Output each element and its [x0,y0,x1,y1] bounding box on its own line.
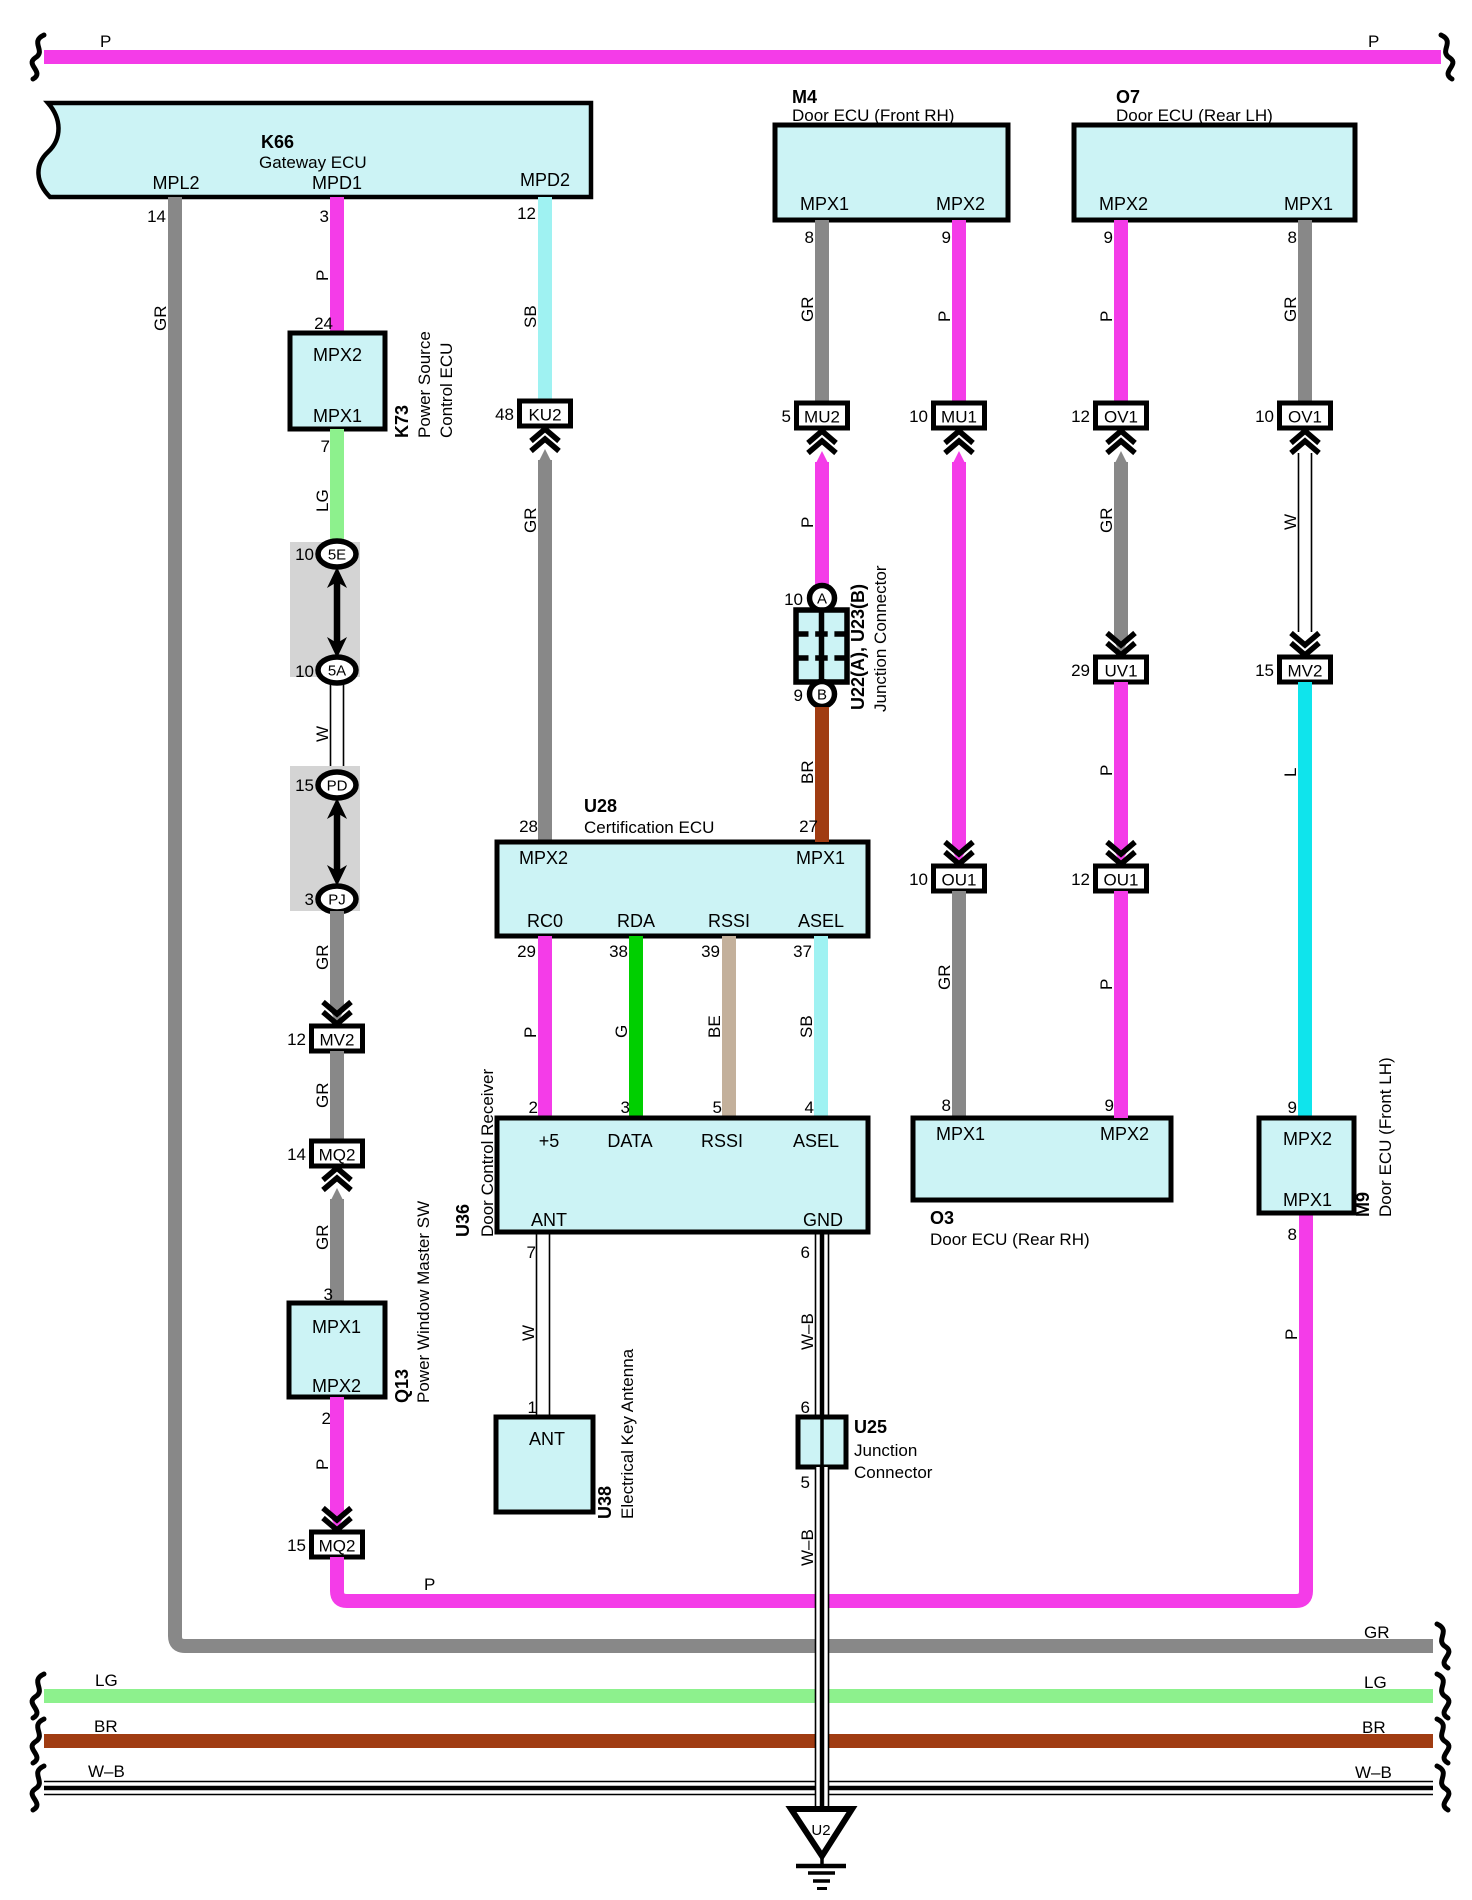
svg-text:6: 6 [801,1243,810,1262]
wire LG from K73 pin 7 to connector 5E [330,429,344,545]
svg-text:Door Control Receiver: Door Control Receiver [478,1068,497,1237]
connector MV2 pin 15 [1280,657,1331,682]
svg-text:P: P [100,32,111,51]
svg-text:39: 39 [701,942,720,961]
wire W-B bus [44,1781,1433,1783]
svg-text:9: 9 [1288,1098,1297,1117]
chevron into OU1 [1107,852,1135,864]
svg-text:MPX1: MPX1 [1283,1190,1332,1210]
junction connector U22(A),U23(B) grid [796,610,847,682]
svg-text:Junction Connector: Junction Connector [871,565,890,712]
wire SB ASEL to ASEL [814,936,828,1118]
svg-text:B: B [817,687,827,704]
svg-text:BR: BR [1362,1718,1386,1737]
svg-text:10: 10 [295,545,314,564]
wire P from MQ2 along bottom up to M9 pin 8 [337,1213,1306,1601]
wire BR bus [44,1734,1433,1748]
chevron into MQ2 [323,1518,351,1530]
connector OU1 pin 12 [1096,866,1147,891]
svg-text:MPX1: MPX1 [313,406,362,426]
wire LG bus [44,1689,1433,1703]
svg-text:GR: GR [1281,297,1300,323]
svg-text:Door ECU (Rear LH): Door ECU (Rear LH) [1116,106,1273,125]
ECU M4 Door ECU (Front RH) box [775,125,1008,220]
svg-text:MU1: MU1 [941,408,977,427]
svg-text:BR: BR [798,760,817,784]
svg-text:W–B: W–B [798,1313,817,1350]
wire GR from MQ2 to Q13 [331,1188,344,1201]
svg-text:8: 8 [1288,1225,1297,1244]
svg-text:GR: GR [935,965,954,991]
chevron out of MU1 [945,431,973,443]
wire GR O7 pin 8 to OV1 [1298,220,1312,403]
svg-text:KU2: KU2 [528,406,561,425]
svg-text:K73: K73 [392,405,412,438]
svg-text:OV1: OV1 [1288,408,1322,427]
svg-text:10: 10 [784,590,803,609]
svg-text:10: 10 [909,407,928,426]
svg-text:Door ECU (Front LH): Door ECU (Front LH) [1376,1057,1395,1217]
svg-text:O3: O3 [930,1208,954,1228]
connector 5E [318,541,356,567]
chevron out of KU2 [531,429,559,441]
svg-text:MPD2: MPD2 [520,170,570,190]
svg-text:GR: GR [521,508,540,534]
svg-text:29: 29 [517,942,536,961]
svg-text:5A: 5A [328,663,346,680]
svg-text:PD: PD [327,778,348,795]
svg-text:2: 2 [529,1098,538,1117]
svg-text:ANT: ANT [531,1210,567,1230]
shield block (gray) PD-PJ [290,766,360,911]
svg-text:48: 48 [495,405,514,424]
svg-text:Power Window Master SW: Power Window Master SW [414,1201,433,1403]
svg-text:MPX2: MPX2 [1099,194,1148,214]
svg-text:OV1: OV1 [1104,408,1138,427]
wire break squiggle top-left [32,35,44,79]
wire break squiggle top-right [1441,35,1453,79]
ECU K66 Gateway ECU box [38,103,591,197]
wire P OU1 to O3 pin 9 [1114,891,1128,1118]
svg-text:K66: K66 [261,132,294,152]
svg-text:SB: SB [521,305,540,328]
svg-text:RSSI: RSSI [701,1131,743,1151]
svg-text:5: 5 [782,407,791,426]
svg-text:9: 9 [794,686,803,705]
ground U2 [791,1809,852,1856]
svg-text:U28: U28 [584,796,617,816]
wire W U36 ANT to U38 [536,1232,538,1417]
svg-text:MQ2: MQ2 [319,1537,356,1556]
svg-text:12: 12 [1071,870,1090,889]
wire BR junction B to U28 pin 27 [815,707,829,842]
svg-text:7: 7 [527,1243,536,1262]
in-harness arrow between PD and PJ [334,808,341,876]
svg-text:P: P [424,1575,435,1594]
svg-text:2: 2 [322,1409,331,1428]
svg-text:3: 3 [305,890,314,909]
wire P MU1 to OU1 [953,451,966,464]
svg-text:27: 27 [799,817,818,836]
svg-text:UV1: UV1 [1104,662,1137,681]
connector OU1 pin 10 [934,866,985,891]
svg-text:OU1: OU1 [1104,871,1139,890]
svg-text:8: 8 [942,1096,951,1115]
ECU O3 Door ECU (Rear RH) box [913,1118,1171,1200]
connector KU2 pin 48 [520,401,571,426]
connector MU2 pin 5 [797,403,848,428]
svg-text:8: 8 [1288,228,1297,247]
svg-text:U2: U2 [811,1822,830,1839]
svg-text:M4: M4 [792,87,817,107]
svg-text:GR: GR [1097,508,1116,534]
svg-text:W–B: W–B [1355,1763,1392,1782]
svg-text:4: 4 [805,1098,814,1117]
svg-text:P: P [798,517,817,528]
svg-text:MV2: MV2 [320,1031,355,1050]
SW Q13 Power Window Master SW box [289,1303,385,1397]
wire W-B U36 GND to U25 [815,1232,817,1417]
svg-text:A: A [817,591,827,608]
svg-text:MPD1: MPD1 [312,173,362,193]
chevron into OU1 [945,852,973,864]
svg-text:GR: GR [313,1083,332,1109]
wire P M4 pin 9 to MU1 [952,220,966,403]
svg-text:Gateway ECU: Gateway ECU [259,153,367,172]
wire G RDA to DATA [629,936,643,1118]
svg-text:W–B: W–B [88,1762,125,1781]
svg-text:5: 5 [801,1473,810,1492]
wire SB from K66 pin 12 to KU2 [538,197,552,401]
svg-text:12: 12 [1071,407,1090,426]
connector OV1 pin 12 [1096,403,1147,428]
wire P MU2 to junction A [816,451,829,464]
svg-text:O7: O7 [1116,87,1140,107]
wire W between 5A and PD [330,683,332,774]
wire GR from MV2 to MQ2 [330,1051,344,1141]
svg-text:U38: U38 [595,1486,615,1519]
svg-text:MPX1: MPX1 [800,194,849,214]
svg-text:LG: LG [95,1671,118,1690]
svg-text:Door ECU (Rear RH): Door ECU (Rear RH) [930,1230,1090,1249]
svg-text:Junction: Junction [854,1441,917,1460]
wire P RC0 to +5 [538,936,552,1118]
svg-text:LG: LG [313,489,332,512]
svg-text:MV2: MV2 [1288,662,1323,681]
connector PJ [318,886,356,912]
svg-text:38: 38 [609,942,628,961]
junction connector U22(A),U23(B) terminal A [810,586,835,611]
svg-text:P: P [935,311,954,322]
svg-text:15: 15 [1255,661,1274,680]
svg-text:MPL2: MPL2 [152,173,199,193]
svg-text:Power Source: Power Source [415,331,434,438]
wire P O7 pin 9 to OV1 [1114,220,1128,403]
svg-text:RC0: RC0 [527,911,563,931]
connector OV1 pin 10 [1280,403,1331,428]
wire P main bus (top) [44,50,1441,64]
svg-text:GR: GR [1364,1623,1390,1642]
wire L MV2 to M9 pin 9 [1298,682,1312,1118]
svg-text:MPX2: MPX2 [936,194,985,214]
svg-text:ASEL: ASEL [793,1131,839,1151]
ECU M9 Door ECU (Front LH) box [1259,1118,1354,1213]
wire W-B U25 to ground U2 [816,1467,829,1809]
svg-text:MPX2: MPX2 [313,345,362,365]
svg-text:1: 1 [528,1398,537,1417]
ECU U28 Certification ECU box [497,842,868,936]
svg-text:OU1: OU1 [942,871,977,890]
svg-text:P: P [1097,765,1116,776]
svg-text:29: 29 [1071,661,1090,680]
svg-text:ASEL: ASEL [798,911,844,931]
svg-text:RDA: RDA [617,911,655,931]
svg-text:DATA: DATA [607,1131,652,1151]
svg-text:GND: GND [803,1210,843,1230]
wire P UV1 to OU1 [1114,682,1128,852]
svg-text:10: 10 [909,870,928,889]
svg-text:12: 12 [517,204,536,223]
wire GR from KU2 to U28 pin 28 [539,449,552,462]
wire break squiggle GR right [1437,1624,1449,1668]
shield block (gray) 5E-5A [290,542,360,677]
svg-text:BE: BE [705,1015,724,1038]
svg-text:MPX2: MPX2 [1100,1124,1149,1144]
svg-text:14: 14 [147,207,166,226]
chevron out of OV1 [1291,431,1319,443]
svg-text:14: 14 [287,1145,306,1164]
ECU O7 Door ECU (Rear LH) box [1074,125,1355,220]
svg-text:P: P [1097,311,1116,322]
svg-text:GR: GR [313,1225,332,1251]
svg-text:U22(A), U23(B): U22(A), U23(B) [848,584,868,710]
chevron out of MQ2 [323,1168,351,1180]
svg-text:GR: GR [313,945,332,971]
svg-text:RSSI: RSSI [708,911,750,931]
wire GR from PJ to MV2 [330,911,344,1012]
svg-text:Electrical Key Antenna: Electrical Key Antenna [618,1348,637,1519]
svg-text:W: W [1281,514,1300,530]
wire GR OU1 to O3 pin 8 [952,891,966,1118]
svg-text:28: 28 [519,817,538,836]
svg-text:MPX2: MPX2 [1283,1129,1332,1149]
svg-text:L: L [1281,768,1300,777]
svg-text:MPX1: MPX1 [1284,194,1333,214]
svg-text:BR: BR [94,1717,118,1736]
svg-text:8: 8 [805,228,814,247]
svg-text:7: 7 [321,437,330,456]
svg-text:Connector: Connector [854,1463,933,1482]
svg-text:P: P [1368,32,1379,51]
chevron into MV2 [323,1012,351,1024]
junction connector terminal B [810,682,835,707]
chevron out of OV1 [1107,431,1135,443]
svg-text:P: P [313,1459,332,1470]
svg-text:MPX1: MPX1 [312,1317,361,1337]
svg-text:10: 10 [1255,407,1274,426]
chevron into MV2 [1291,643,1319,655]
svg-text:9: 9 [942,228,951,247]
in-harness arrow between 5E and 5A [334,577,341,648]
svg-text:SB: SB [797,1015,816,1038]
svg-text:Control ECU: Control ECU [437,343,456,438]
svg-text:12: 12 [287,1030,306,1049]
svg-text:MPX2: MPX2 [312,1376,361,1396]
svg-text:10: 10 [295,662,314,681]
svg-text:G: G [612,1025,631,1038]
connector UV1 pin 29 [1096,657,1147,682]
svg-text:9: 9 [1104,228,1113,247]
svg-text:P: P [313,270,332,281]
svg-text:U36: U36 [453,1204,473,1237]
svg-text:GR: GR [151,306,170,332]
svg-text:+5: +5 [539,1131,560,1151]
svg-text:Q13: Q13 [392,1369,412,1403]
svg-text:6: 6 [801,1398,810,1417]
svg-text:W–B: W–B [798,1529,817,1566]
svg-text:PJ: PJ [328,892,346,909]
svg-text:LG: LG [1364,1673,1387,1692]
junction connector U25 box [798,1417,846,1467]
wire W OV1 to MV2 [1298,453,1300,632]
svg-text:MQ2: MQ2 [319,1146,356,1165]
svg-text:9: 9 [1105,1096,1114,1115]
svg-text:15: 15 [287,1536,306,1555]
wire P from K66 pin 3 to K73 [330,197,344,333]
connector 5A [318,657,356,683]
svg-text:MPX1: MPX1 [936,1124,985,1144]
svg-text:U25: U25 [854,1417,887,1437]
wire GR M4 pin 8 to MU2 [815,220,829,403]
connector MQ2 pin 14 [312,1141,363,1166]
svg-text:MU2: MU2 [804,408,840,427]
connector MQ2 pin 15 [312,1532,363,1557]
connector MV2 pin 12 [312,1026,363,1051]
svg-text:W: W [519,1325,538,1341]
chevron out of MU2 [808,431,836,443]
svg-text:Certification ECU: Certification ECU [584,818,714,837]
svg-text:15: 15 [295,776,314,795]
svg-text:P: P [1097,979,1116,990]
svg-text:3: 3 [621,1098,630,1117]
svg-text:37: 37 [793,942,812,961]
connector MU1 pin 10 [934,403,985,428]
svg-text:P: P [521,1027,540,1038]
svg-text:5: 5 [713,1098,722,1117]
svg-text:5E: 5E [328,547,346,564]
wire BE RSSI to RSSI [722,936,736,1118]
svg-text:MPX2: MPX2 [519,848,568,868]
svg-text:GR: GR [798,297,817,323]
ECU U36 Door Control Receiver box [497,1118,868,1232]
svg-text:MPX1: MPX1 [796,848,845,868]
svg-text:3: 3 [320,207,329,226]
antenna U38 Electrical Key Antenna box [496,1417,593,1512]
wire GR from K66 pin 14 down and right to bottom bus [175,197,1433,1646]
svg-text:M9: M9 [1353,1192,1373,1217]
chevron into UV1 [1107,643,1135,655]
wire GR OV1 to UV1 [1115,451,1128,464]
ECU K73 Power Source Control ECU box [290,333,385,429]
svg-text:Door ECU (Front RH): Door ECU (Front RH) [792,106,954,125]
svg-text:24: 24 [314,314,333,333]
connector PD [318,772,356,798]
svg-text:P: P [1282,1329,1301,1340]
svg-text:ANT: ANT [529,1429,565,1449]
svg-text:W: W [313,726,332,742]
